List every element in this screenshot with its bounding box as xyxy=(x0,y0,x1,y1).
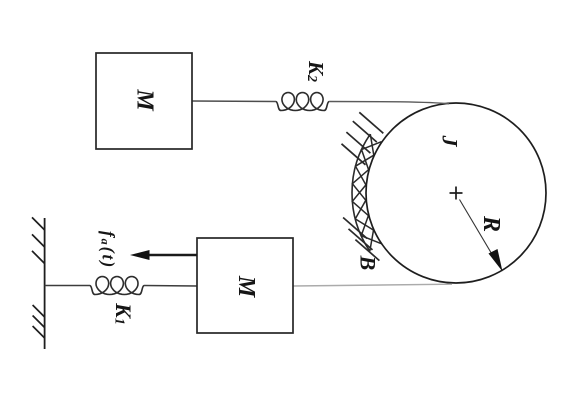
mass M lower box xyxy=(197,238,293,333)
radius arrow xyxy=(460,200,497,262)
spring K1 coil xyxy=(90,277,144,295)
disk center mark xyxy=(450,187,463,200)
friction band outer arc xyxy=(352,134,370,251)
friction band cross-hatch zigzag 1 xyxy=(352,134,381,244)
rod wall to spring K1 xyxy=(45,285,90,287)
friction band cross-hatch zigzag 2 xyxy=(352,142,381,252)
rod spring K1 to lower mass xyxy=(144,285,197,288)
svg-text:M: M xyxy=(132,88,158,112)
wall line xyxy=(44,218,46,349)
force arrow f_a(t) xyxy=(147,254,197,257)
wall hatch strokes (upper group) xyxy=(32,217,45,263)
svg-text:B: B xyxy=(356,255,381,271)
spring K2 coil xyxy=(276,93,329,111)
rod from spring K2 to disk rim xyxy=(329,102,449,104)
svg-text:J: J xyxy=(438,135,463,148)
svg-text:M: M xyxy=(233,275,259,299)
wall hatch strokes (lower group) xyxy=(33,305,45,338)
rod from lower mass to disk rim (light) xyxy=(293,284,452,286)
rod from upper mass to spring K2 xyxy=(192,100,276,103)
mass M upper box xyxy=(96,53,192,149)
disk J outline xyxy=(366,103,546,283)
friction band ground hatch strokes xyxy=(342,112,384,260)
svg-text:R: R xyxy=(478,215,504,232)
svg-text:fa(t): fa(t) xyxy=(99,231,119,269)
